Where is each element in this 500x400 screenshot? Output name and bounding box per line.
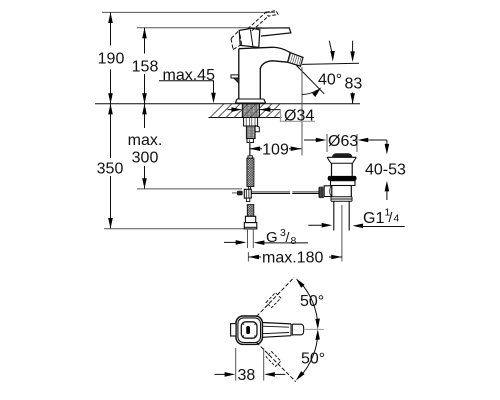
shank through deck (threaded) xyxy=(242,104,259,118)
G3/8 connector nut xyxy=(245,216,255,222)
dimension max.300 line xyxy=(144,104,146,189)
inner slot xyxy=(246,326,250,334)
lever neck (top view) xyxy=(262,323,291,338)
supply hose lower section xyxy=(247,205,254,217)
label Ø34 with leader xyxy=(260,109,281,111)
dimension 158 line xyxy=(144,28,146,104)
svg-text:G: G xyxy=(266,229,278,246)
svg-text:Ø34: Ø34 xyxy=(284,108,314,125)
dimension Ø63 xyxy=(327,134,357,152)
40° leader arrow (curved stem, down onto L2) xyxy=(329,41,332,57)
deck underside line xyxy=(209,117,282,119)
extension line: top of raised lever (190 ref) xyxy=(102,11,275,13)
drain bottom collar xyxy=(331,197,352,202)
lever end cap xyxy=(292,324,303,335)
50° arc upper xyxy=(300,282,318,327)
centerline segment below stud xyxy=(249,143,251,158)
hose crimp collar xyxy=(248,156,253,158)
Ø34 arrows xyxy=(231,107,242,112)
svg-text:50°: 50° xyxy=(300,293,324,310)
svg-text:109: 109 xyxy=(262,142,289,159)
pop-up rod clamp block xyxy=(244,189,251,198)
supply hose (braided) upper section xyxy=(247,158,254,187)
svg-text:190: 190 xyxy=(98,51,125,68)
drain side port xyxy=(324,186,332,197)
40° arc with arrowhead xyxy=(302,90,318,95)
dashed grip upper xyxy=(266,293,281,308)
rubber gasket (black) xyxy=(328,176,357,181)
drain: pop-up plug knob xyxy=(332,153,352,157)
dimension 350 line xyxy=(110,104,112,229)
dashed swing line upper xyxy=(257,277,295,316)
svg-text:300: 300 xyxy=(132,150,159,167)
drain upper body xyxy=(331,181,356,186)
svg-text:Ø63: Ø63 xyxy=(328,133,358,150)
faucet base xyxy=(237,98,264,100)
dimension 109 xyxy=(249,139,251,155)
svg-text:40°: 40° xyxy=(318,72,342,89)
svg-text:158: 158 xyxy=(132,59,159,76)
svg-text:max.: max. xyxy=(128,132,163,149)
350 bottom reference line (hose end level) xyxy=(104,228,255,230)
deck surface line xyxy=(95,103,360,105)
handle body outer xyxy=(236,316,262,344)
dimension 38 xyxy=(236,348,264,381)
dashed grip lower xyxy=(266,352,281,367)
extension line: lever top level (158 ref) xyxy=(137,27,262,29)
drain tailpipe xyxy=(334,201,349,230)
faucet body outline xyxy=(239,49,260,99)
max.300 bottom reference line (rod level) xyxy=(137,188,242,190)
40° angled line L1 (aerator direction) xyxy=(297,66,325,94)
svg-text:350: 350 xyxy=(97,161,124,178)
rod hook clip xyxy=(255,126,259,132)
deck cross-hatching xyxy=(210,104,281,118)
svg-text:83: 83 xyxy=(345,76,363,93)
horizontal pop-up rod to drain xyxy=(251,192,290,194)
svg-text:50°: 50° xyxy=(301,350,325,367)
50° arc lower xyxy=(300,332,318,377)
dashed lever end cap xyxy=(266,11,278,17)
dashed lever arm (raised position) xyxy=(248,12,269,31)
svg-text:G1: G1 xyxy=(363,210,384,227)
svg-text:4: 4 xyxy=(394,213,400,225)
knurled adjuster knob xyxy=(319,187,325,199)
handle inner square xyxy=(241,322,257,338)
dimension 40-53 xyxy=(386,140,388,149)
spout outlet level line L2 xyxy=(302,63,359,64)
left tab xyxy=(231,324,236,336)
svg-text:max.180: max.180 xyxy=(262,250,323,267)
svg-text:40-53: 40-53 xyxy=(365,162,406,179)
lever centerline xyxy=(304,328,324,330)
dimension 190 line xyxy=(110,12,112,103)
mounting nut below deck xyxy=(244,118,258,127)
drain flange xyxy=(327,156,356,158)
drain neck xyxy=(332,163,353,176)
dashed swing line lower xyxy=(257,342,296,381)
dimension max.180 xyxy=(247,252,249,262)
dimension 83 xyxy=(352,41,354,56)
lever arm (solid, horizontal) xyxy=(256,28,291,36)
pop-up rod knob on body left xyxy=(231,75,239,78)
handle wedge (solid) xyxy=(239,28,260,47)
thin rod below hose xyxy=(249,187,251,190)
svg-text:/: / xyxy=(389,209,393,225)
connector bottom pipe xyxy=(248,229,254,248)
threaded stud xyxy=(246,126,255,139)
stud lower tip xyxy=(247,139,253,143)
clamp left ball xyxy=(237,191,243,196)
spout underside curve xyxy=(260,61,287,69)
svg-text:/: / xyxy=(286,229,290,245)
svg-text:38: 38 xyxy=(238,367,256,384)
svg-text:max.45: max.45 xyxy=(163,67,216,84)
dashed skirt (raised handle position) xyxy=(231,30,242,49)
corner dots xyxy=(243,324,244,325)
label G1 1/4 with leader xyxy=(308,224,326,226)
aerator (spout tip, tilted with hatch) xyxy=(288,53,303,67)
drain main body xyxy=(332,186,352,197)
svg-text:8: 8 xyxy=(291,235,297,247)
clamp lower stub xyxy=(246,198,249,202)
label G3/8 with leader arrows xyxy=(224,241,242,243)
vertical extension line from outlet (109 right ref) xyxy=(301,67,303,156)
